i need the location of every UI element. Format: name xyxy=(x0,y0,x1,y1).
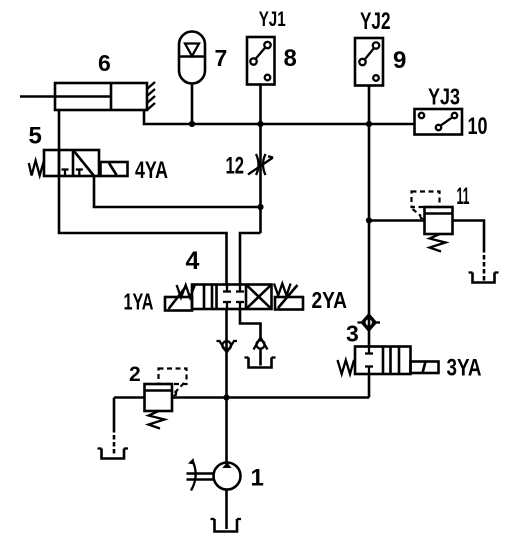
svg-text:3YA: 3YA xyxy=(447,355,482,382)
svg-text:4: 4 xyxy=(186,247,200,275)
svg-text:3: 3 xyxy=(346,321,359,347)
svg-text:10: 10 xyxy=(468,113,488,140)
svg-text:5: 5 xyxy=(29,123,42,150)
svg-text:2: 2 xyxy=(129,363,141,386)
svg-text:6: 6 xyxy=(98,50,111,76)
svg-text:11: 11 xyxy=(457,183,470,210)
svg-text:7: 7 xyxy=(215,45,228,71)
svg-text:YJ2: YJ2 xyxy=(360,8,391,35)
svg-text:1YA: 1YA xyxy=(124,289,154,315)
svg-text:4YA: 4YA xyxy=(135,157,168,184)
svg-text:YJ1: YJ1 xyxy=(259,8,286,31)
svg-text:2YA: 2YA xyxy=(312,287,348,313)
svg-text:8: 8 xyxy=(284,45,297,72)
svg-text:1: 1 xyxy=(251,465,264,492)
svg-text:9: 9 xyxy=(393,47,406,74)
svg-text:12: 12 xyxy=(226,153,245,180)
svg-text:YJ3: YJ3 xyxy=(428,84,460,110)
